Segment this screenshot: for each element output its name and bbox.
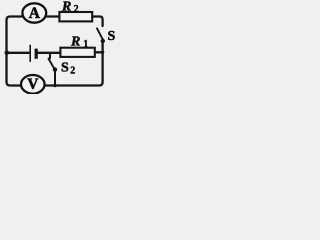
ammeter A: [22, 3, 46, 22]
svg-text:1: 1: [83, 39, 88, 50]
node: left rail / battery branch junction: [5, 51, 10, 56]
node: bottom wire / S2 junction: [53, 84, 56, 87]
svg-text:V: V: [27, 76, 39, 93]
voltmeter V: [21, 75, 45, 94]
wire: S2 top stub from junction: [49, 53, 51, 58]
wire: middle branch, left rail to battery: [7, 52, 29, 54]
svg-text:R: R: [70, 34, 80, 49]
svg-text:2: 2: [74, 4, 79, 15]
switch S blade: [97, 28, 103, 39]
svg-text:A: A: [29, 5, 41, 22]
wire: battery to R1: [38, 52, 61, 54]
wire: left rail with top-left and bottom-left corners: [7, 17, 23, 86]
resistor R1: [60, 48, 94, 57]
battery cell: short thick plate: [35, 49, 38, 59]
svg-text:R: R: [61, 0, 71, 15]
node: right rail / R1 junction: [101, 51, 104, 54]
switch S2 terminal dot: [53, 67, 57, 71]
switch S bottom terminal dot: [101, 39, 105, 43]
switch S2 blade: [49, 59, 55, 69]
svg-text:S: S: [108, 29, 116, 44]
wire: R2 to top-right corner and switch top stub: [92, 17, 103, 27]
svg-text:S: S: [61, 61, 69, 76]
wire: right rail from switch dot to bottom-right corner to S2 junction: [45, 43, 103, 86]
wire: R1 right side to right rail: [95, 51, 103, 53]
battery cell: long plate: [29, 45, 31, 62]
wire: ammeter to R2: [46, 15, 59, 17]
svg-text:2: 2: [70, 66, 75, 77]
wire: S2 dot down to bottom wire: [54, 71, 56, 86]
background: [0, 0, 118, 94]
resistor R2: [59, 12, 92, 21]
